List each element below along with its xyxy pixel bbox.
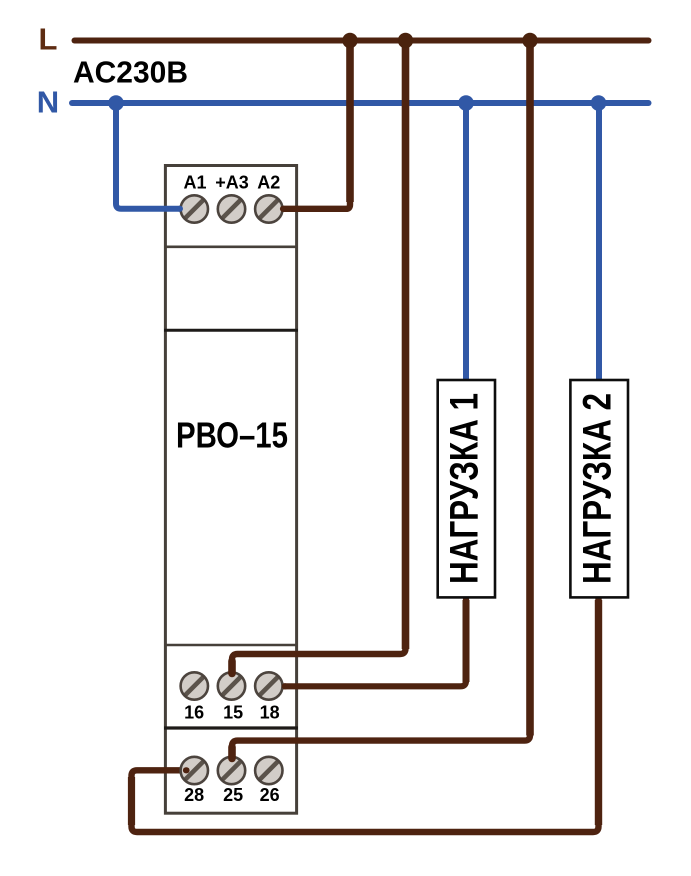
svg-text:НАГРУЗКА 1: НАГРУЗКА 1 — [443, 393, 487, 584]
svg-text:A1: A1 — [183, 173, 206, 193]
device box РВО-15 — [165, 166, 296, 814]
wire terminal 18 to load 1 — [283, 597, 466, 686]
svg-text:A2: A2 — [257, 173, 280, 193]
junction dot L-25 — [522, 33, 537, 48]
svg-text:N: N — [37, 85, 59, 120]
wire tip into terminal 15 — [228, 661, 236, 674]
junction dot N-A1 — [108, 95, 124, 111]
wire L to terminal 15 — [232, 41, 406, 674]
svg-text:16: 16 — [184, 703, 204, 723]
junction dot N-load2 — [591, 95, 607, 111]
wire vertical load 2 drop (thick) — [595, 600, 602, 825]
terminal 15 — [218, 672, 245, 699]
device divider 2 — [164, 329, 298, 332]
svg-text:18: 18 — [260, 703, 280, 723]
junction dot L-15 — [398, 33, 413, 48]
svg-text:+A3: +A3 — [215, 173, 249, 193]
wire L to terminal 25 — [232, 41, 530, 759]
wire vertical load 1 drop (thick) — [463, 600, 470, 682]
load box НАГРУЗКА 1 — [438, 380, 495, 597]
wire tip into terminal 25 — [228, 747, 236, 759]
wire N to terminal A1 — [116, 103, 194, 209]
wire tip into terminal 18 — [282, 683, 289, 689]
svg-text:28: 28 — [184, 785, 204, 805]
svg-text:25: 25 — [223, 785, 243, 805]
terminal 16 — [181, 672, 208, 699]
svg-text:AC230B: AC230B — [73, 55, 188, 90]
load box НАГРУЗКА 2 — [570, 380, 628, 597]
junction dot L-A2 — [342, 33, 357, 48]
terminal 28 — [181, 757, 208, 784]
wire N to load 1 — [463, 103, 469, 380]
device divider 1 — [164, 246, 298, 249]
junction dot N-load1 — [458, 95, 474, 111]
svg-text:26: 26 — [260, 785, 280, 805]
terminal +A3 — [218, 195, 245, 222]
wire tip into terminal A2 — [280, 206, 287, 212]
wire terminal 28 to load 2 — [132, 597, 599, 832]
wire L bus — [75, 38, 649, 44]
terminal A2 — [255, 195, 282, 222]
wire terminal A2 to L bus — [283, 41, 350, 209]
terminal 26 — [255, 757, 282, 784]
terminal A1 — [181, 195, 208, 222]
device divider 4 — [164, 726, 298, 729]
terminal 18 — [255, 672, 282, 699]
terminal 25 — [218, 757, 245, 784]
wire vertical L to 15 elbow (thick) — [402, 41, 410, 650]
wire vertical L to 25 elbow (thick) — [526, 41, 534, 736]
wire tip into terminal 28 — [183, 767, 190, 773]
wire N bus — [72, 100, 649, 106]
svg-text:РВО–15: РВО–15 — [176, 414, 288, 455]
wire N to load 2 — [596, 103, 602, 380]
svg-text:НАГРУЗКА 2: НАГРУЗКА 2 — [576, 393, 620, 584]
svg-text:15: 15 — [223, 703, 243, 723]
wire vertical L to A2 elbow (thick) — [346, 41, 354, 203]
wire tip into terminal A1 — [177, 206, 184, 212]
svg-text:L: L — [39, 22, 58, 57]
wire vertical 28 elbow (thick) — [128, 777, 135, 825]
device divider 3 — [164, 644, 298, 647]
